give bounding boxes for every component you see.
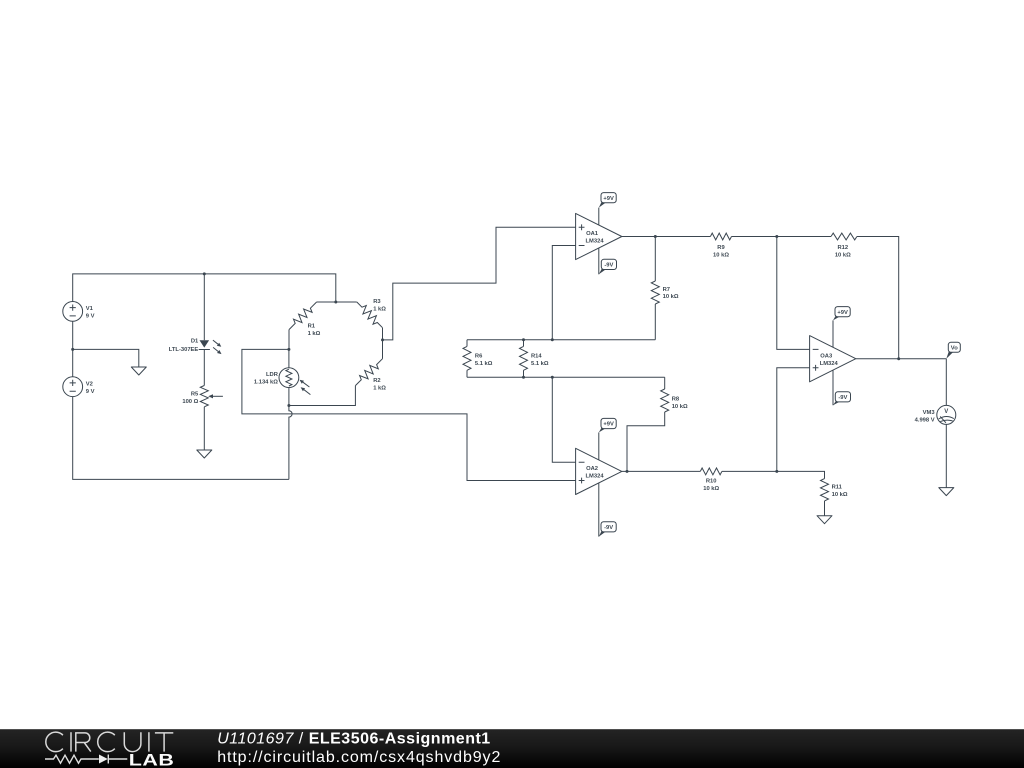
resistor R9 10k <box>710 233 731 240</box>
svg-text:LM324: LM324 <box>586 474 605 480</box>
flag: OA3 -9V <box>833 401 841 405</box>
ground: mid supply <box>131 367 146 375</box>
svg-text:R10: R10 <box>706 478 717 484</box>
svg-text:R2: R2 <box>373 378 380 384</box>
svg-text:+9V: +9V <box>603 196 614 202</box>
svg-text:9 V: 9 V <box>86 313 95 319</box>
wire: bridge top horizontal <box>317 301 357 303</box>
flag: OA2 +9V <box>599 428 606 432</box>
wire: OA3 plus input from R10 junction <box>777 368 810 472</box>
svg-text:-9V: -9V <box>838 395 847 401</box>
svg-text:OA2: OA2 <box>586 466 598 472</box>
wire: R6/R14 top and bottom rails <box>467 339 655 341</box>
ground: below voltmeter <box>939 488 954 496</box>
svg-text:V1: V1 <box>86 306 94 312</box>
svg-text:5.1 kΩ: 5.1 kΩ <box>531 361 549 367</box>
wire: OA1 -9V supply stub <box>598 248 600 274</box>
wire: +9V top rail from V1 to bridge top <box>73 274 336 302</box>
node: bridge left <box>287 348 290 351</box>
svg-text:5.1 kΩ: 5.1 kΩ <box>475 361 493 367</box>
node: OA3 output / R12 feedback <box>897 357 900 360</box>
svg-text:1 kΩ: 1 kΩ <box>308 331 321 337</box>
svg-text:100 Ω: 100 Ω <box>182 399 198 405</box>
svg-text:9 V: 9 V <box>86 389 95 395</box>
op-amp OA3 LM324 <box>810 336 856 382</box>
node: OA2 output / R8 branch <box>626 470 629 473</box>
voltage source V1 <box>63 302 83 322</box>
wire: D1 branch drop <box>203 274 205 340</box>
potentiometer R5 100 ohm <box>200 386 208 407</box>
svg-text:-9V: -9V <box>604 525 613 531</box>
flag: output Vo <box>946 352 953 359</box>
svg-text:10 kΩ: 10 kΩ <box>703 486 719 492</box>
resistor R1 1k (bridge upper-left diagonal) <box>289 302 317 330</box>
resistor R3 1k (bridge upper-right diagonal) <box>357 302 383 328</box>
flag: OA2 -9V <box>599 531 606 536</box>
wire: OA2 output through R10 to R11 <box>622 471 825 478</box>
wire: D1 cathode to R5 <box>203 349 205 385</box>
svg-text:LM324: LM324 <box>586 239 605 245</box>
svg-text:+9V: +9V <box>603 422 614 428</box>
wire: OA1 +9V supply stub <box>598 208 600 225</box>
wire: OA3 +9V supply stub <box>832 320 834 347</box>
svg-text:R5: R5 <box>191 392 199 398</box>
node: bottom rail R14 <box>522 376 525 379</box>
svg-text:VM3: VM3 <box>923 410 936 416</box>
svg-text:R9: R9 <box>717 245 725 251</box>
svg-text:OA1: OA1 <box>586 231 599 237</box>
wire: Vo node down to voltmeter <box>945 359 947 406</box>
wire: midpoint to ground stub <box>73 349 139 367</box>
LED D1 LTL-307EE <box>200 340 210 347</box>
svg-text:R7: R7 <box>663 287 670 293</box>
op-amp OA2 LM324 <box>576 448 622 494</box>
svg-text:OA3: OA3 <box>820 353 833 359</box>
svg-text:LTL-307EE: LTL-307EE <box>169 347 199 353</box>
LED D1 emission arrows <box>213 340 218 351</box>
wire: OA3 minus input from R9/R12 junction <box>777 237 810 350</box>
node: V1/V2 midpoint <box>71 348 74 351</box>
svg-text:4.998 V: 4.998 V <box>915 417 935 423</box>
node: bridge bottom <box>287 404 290 407</box>
node: rail junction R9/OA3 minus <box>775 235 778 238</box>
svg-text:V2: V2 <box>86 381 93 387</box>
logo resistor-diode glyph <box>45 755 99 763</box>
svg-text:U1101697 / ELE3506-Assignment1: U1101697 / ELE3506-Assignment1 <box>217 731 491 748</box>
voltage source V2 <box>63 377 83 397</box>
resistor R6 5.1k <box>466 340 468 378</box>
wire: OA1 minus input to R6/R14 top rail <box>552 246 575 340</box>
svg-text:R3: R3 <box>373 299 381 305</box>
wire: R5 to ground <box>203 407 205 450</box>
svg-text:LDR: LDR <box>266 372 279 378</box>
flag: OA3 +9V <box>833 316 840 320</box>
wire: OA3 output to Vo <box>856 358 947 360</box>
svg-text:-9V: -9V <box>604 263 613 269</box>
svg-text:10 kΩ: 10 kΩ <box>663 294 679 300</box>
wire: OA3 -9V supply stub <box>832 370 834 405</box>
svg-text:10 kΩ: 10 kΩ <box>832 492 848 498</box>
flag: OA1 -9V <box>599 269 607 274</box>
node: bottom rail OA2 minus branch <box>551 376 554 379</box>
svg-text:D1: D1 <box>191 338 199 344</box>
resistor R12 10k <box>831 233 857 240</box>
svg-text:Vo: Vo <box>951 346 958 352</box>
ground: below R5 <box>197 450 212 458</box>
svg-text:10 kΩ: 10 kΩ <box>713 253 729 259</box>
footer bar <box>0 729 1024 768</box>
flag: OA1 +9V <box>599 202 606 207</box>
wire: bridge left node loop to OA2 plus input <box>242 349 576 480</box>
voltmeter VM3 <box>937 405 956 424</box>
resistor R2 1k (bridge lower-right diagonal) <box>382 340 384 359</box>
wire: OA2 -9V supply stub <box>598 483 600 537</box>
logo CIRCUIT hand-drawn letters <box>46 732 173 752</box>
svg-text:R12: R12 <box>837 245 848 251</box>
resistor R8 10k <box>627 377 665 471</box>
wire: OA2 +9V supply stub <box>598 432 600 460</box>
svg-text:1.134 kΩ: 1.134 kΩ <box>254 380 278 386</box>
ground: below R11 <box>817 516 832 524</box>
svg-text:10 kΩ: 10 kΩ <box>835 253 851 259</box>
svg-text:http://circuitlab.com/csx4qshv: http://circuitlab.com/csx4qshvdb9y2 <box>217 749 501 766</box>
wire: bridge right node to OA1 plus input <box>383 227 576 340</box>
resistor R7 10k <box>654 237 656 340</box>
LDR incident light arrows <box>303 382 311 394</box>
resistor R10 10k <box>700 468 722 475</box>
svg-text:R11: R11 <box>832 485 843 491</box>
node: top rail R14 <box>522 338 525 341</box>
svg-text:LAB: LAB <box>129 752 175 768</box>
wire: V1 minus to mid node to V2 plus <box>72 321 74 377</box>
node: OA1 output / R7 top <box>654 235 657 238</box>
svg-text:R1: R1 <box>308 324 316 330</box>
node: junction top rail / D1 branch <box>203 272 206 275</box>
svg-text:R6: R6 <box>475 354 483 360</box>
wire: OA1 output rail with R9 R12 to OA3 output junction <box>622 237 899 359</box>
photoresistor LDR 1.134k <box>288 349 290 405</box>
resistor R14 5.1k <box>523 340 525 378</box>
wire: OA2 minus input to bottom rail <box>552 377 575 462</box>
svg-text:10 kΩ: 10 kΩ <box>672 404 688 410</box>
svg-text:1 kΩ: 1 kΩ <box>373 385 386 391</box>
node: bridge right <box>381 338 384 341</box>
svg-text:1 kΩ: 1 kΩ <box>373 307 386 313</box>
svg-text:R14: R14 <box>531 354 542 360</box>
wire: voltmeter to ground <box>945 424 947 487</box>
op-amp OA1 LM324 <box>576 213 622 259</box>
wire: V2 minus down, -9V bottom rail to bridge bottom, with hop over box wire <box>73 397 289 480</box>
node: top rail OA1 minus branch <box>551 338 554 341</box>
svg-text:R8: R8 <box>672 397 680 403</box>
svg-text:LM324: LM324 <box>820 361 839 367</box>
node: R10 / OA3 plus branch <box>775 470 778 473</box>
svg-text:V: V <box>944 409 948 415</box>
svg-text:+9V: +9V <box>837 310 848 316</box>
node: bridge top <box>334 301 337 304</box>
resistor R11 10k <box>821 479 829 501</box>
